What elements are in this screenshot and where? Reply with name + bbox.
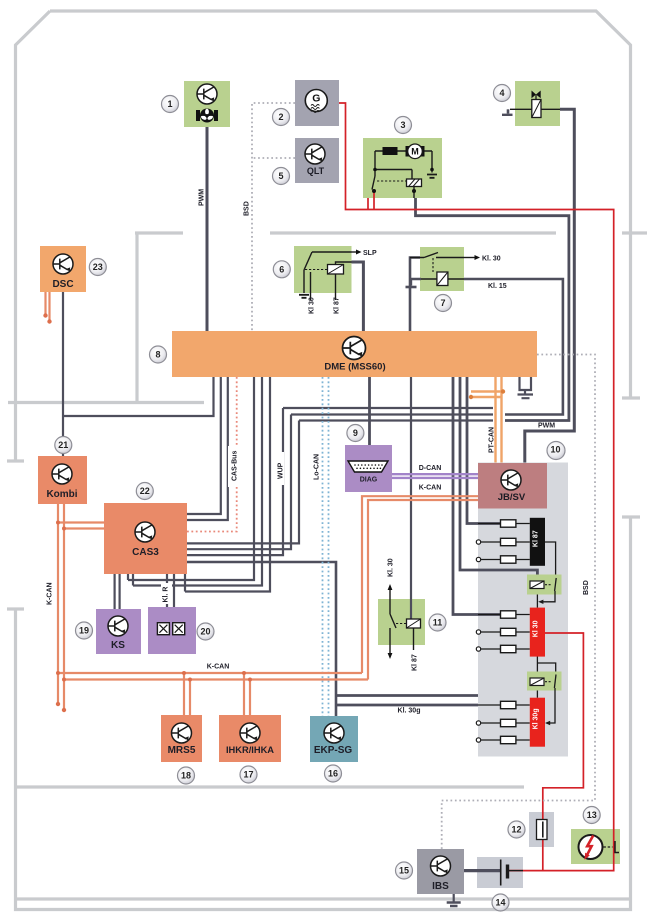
svg-text:DSC: DSC [52, 279, 73, 290]
svg-text:MRS5: MRS5 [168, 745, 196, 756]
svg-text:Kombi: Kombi [46, 489, 77, 500]
label circle 9 [347, 425, 364, 442]
separator line bottom full [16, 897, 631, 900]
ECU symbol EKP-SG [324, 723, 344, 743]
box 1 e-fan green [184, 81, 230, 127]
wire DME pin B to relay1 [460, 377, 537, 581]
box7 internals [410, 253, 464, 280]
label circle 5 [273, 168, 290, 185]
frame ticks [7, 233, 647, 609]
svg-text:1: 1 [167, 99, 172, 109]
wire box3 relay out to panel KL30 col [416, 198, 569, 421]
svg-text:DIAG: DIAG [360, 477, 378, 484]
KL 30g red bar [530, 698, 545, 747]
svg-text:Kl. R: Kl. R [163, 587, 170, 603]
svg-text:8: 8 [155, 350, 160, 360]
svg-text:13: 13 [587, 810, 597, 820]
MRS5 box 18 [161, 715, 202, 762]
ECU symbol IBS [431, 856, 451, 876]
ECU symbol QLT [305, 144, 325, 164]
svg-text:QLT: QLT [307, 166, 325, 176]
fuse F8 [501, 719, 516, 726]
fuse F7 [501, 701, 516, 708]
battery symbol [500, 860, 502, 886]
label circle 19 [76, 622, 93, 639]
fuse F4 [501, 611, 516, 618]
KL 87 black bar [530, 518, 545, 566]
Kombi drops [58, 504, 64, 710]
wire box7 to DME [410, 258, 420, 332]
svg-text:PWM: PWM [538, 423, 555, 430]
DIAG connector [348, 461, 388, 472]
svg-text:18: 18 [181, 771, 191, 781]
KL 30 red bar [530, 608, 545, 657]
svg-text:20: 20 [200, 627, 210, 637]
svg-text:K-CAN: K-CAN [419, 485, 442, 492]
svg-text:19: 19 [79, 626, 89, 636]
svg-text:DME (MSS60): DME (MSS60) [324, 362, 385, 373]
CAS3 box 22 [104, 503, 187, 574]
svg-text:SLP: SLP [363, 250, 377, 257]
starter 13 symbol [579, 835, 603, 859]
Kombi box 21 [38, 456, 87, 504]
Kombi to CAS3 [58, 523, 104, 529]
box2 generator symbol [305, 90, 327, 113]
CAS-Bus dotted [187, 377, 237, 532]
svg-text:WUP: WUP [278, 462, 285, 479]
BSD dotted top [252, 103, 595, 849]
separator y402 [8, 401, 204, 404]
wire DME pair to CAS3 right [187, 377, 228, 520]
svg-text:4: 4 [499, 88, 504, 98]
DSC box 23 [40, 246, 86, 292]
wire DME pin A to fuse1 [467, 377, 501, 524]
KL R label [161, 583, 172, 604]
label circle 11 [429, 614, 446, 631]
svg-text:CAS3: CAS3 [132, 547, 159, 558]
net label CAS-Bus [228, 446, 238, 487]
svg-text:Kl 87: Kl 87 [334, 297, 341, 314]
label circle 4 [494, 85, 511, 102]
wire CAS3 to KS [115, 574, 120, 609]
IHKR/IHKA box 17 [219, 715, 281, 762]
label circle 10 [547, 442, 565, 460]
ECU symbol JB/SV [501, 470, 521, 490]
label circle 20 [197, 623, 214, 640]
svg-text:M: M [411, 147, 419, 157]
ECU symbol CAS3 [135, 522, 155, 542]
box20 X plugs [157, 623, 169, 635]
svg-text:JB/SV: JB/SV [498, 492, 526, 503]
fuse F9 [501, 736, 516, 743]
svg-text:2: 2 [278, 112, 283, 122]
box 5 QLT gray [295, 138, 339, 183]
label circle 1 [162, 96, 179, 113]
relay box 11 [378, 599, 425, 645]
svg-text:BSD: BSD [583, 580, 590, 595]
svg-text:EKP-SG: EKP-SG [314, 745, 353, 756]
svg-text:G: G [312, 93, 320, 105]
svg-text:KS: KS [111, 640, 125, 651]
battery box 14 [477, 857, 523, 888]
svg-text:IBS: IBS [432, 881, 449, 892]
svg-text:Kl. 30g: Kl. 30g [398, 708, 421, 715]
svg-text:Kl 87: Kl 87 [532, 530, 539, 547]
ECU symbol KS [108, 616, 128, 636]
box 20 [148, 607, 196, 654]
svg-text:K-CAN: K-CAN [207, 664, 230, 671]
svg-text:6: 6 [279, 265, 284, 275]
svg-text:Kl 30g: Kl 30g [532, 708, 539, 729]
svg-text:5: 5 [278, 171, 283, 181]
wire DME to DIAG [368, 377, 371, 445]
wire DME pin C to fuse4 [453, 377, 501, 615]
label circle 23 [89, 259, 106, 276]
relay 2 green [527, 672, 562, 691]
svg-text:22: 22 [140, 486, 150, 496]
starter box 13 [571, 829, 620, 864]
wire box4 to PWM JBSV [525, 109, 575, 462]
separator y233 segments [135, 231, 556, 234]
label circle 12 [508, 821, 525, 838]
ECU symbol Kombi [52, 464, 72, 484]
svg-text:Lo-CAN: Lo-CAN [314, 454, 321, 480]
wire KL15 from box7 to bus [464, 279, 563, 415]
wire PWM box1 to DME [206, 127, 209, 331]
wire verticals to CAS3 [187, 408, 299, 555]
fuse F6 [501, 645, 516, 652]
Lo-CAN dotted pair [323, 377, 329, 716]
label circle 21 [55, 437, 72, 454]
wire DSC-DME-Kombi [63, 292, 214, 456]
svg-text:Kl 30: Kl 30 [532, 620, 539, 637]
red box3 drop [368, 191, 374, 210]
DME box 8 [172, 331, 537, 377]
svg-text:BSD: BSD [244, 201, 251, 216]
BSD dotted right-bottom [442, 355, 595, 850]
svg-text:7: 7 [440, 298, 445, 308]
svg-text:Kl. 30: Kl. 30 [482, 256, 501, 263]
ECU symbol IHKR/IHKA [240, 723, 260, 743]
fuse row wires [478, 524, 556, 741]
svg-text:Kl. 15: Kl. 15 [488, 283, 507, 290]
svg-text:11: 11 [433, 618, 443, 628]
svg-text:PWM: PWM [199, 189, 206, 206]
relay11 internals [390, 589, 414, 654]
K-CAN JBSV to bus [362, 496, 478, 679]
svg-text:16: 16 [328, 769, 338, 779]
EKP-SG box 16 [310, 716, 358, 762]
svg-text:K-CAN: K-CAN [47, 582, 54, 605]
box 3 pump relay green [363, 138, 442, 198]
wire CAS3 to EKP and KL30g lines [187, 562, 336, 716]
K-CAN bus [58, 673, 368, 680]
fuse F1 [501, 520, 516, 527]
fuse F2 [501, 538, 516, 545]
svg-text:21: 21 [58, 440, 68, 450]
wire box6 coil to DME [352, 262, 364, 331]
box 6 relay green [294, 246, 352, 293]
label circle 14 [492, 894, 509, 911]
fuse 12 symbol [537, 820, 548, 840]
fuse F3 [501, 556, 516, 563]
label circle 18 [178, 767, 195, 784]
svg-text:23: 23 [93, 262, 103, 272]
ECU symbol DSC [53, 254, 73, 274]
wire DME to relay11 coil [410, 377, 412, 620]
ECU symbol box 1 e-fan module [197, 84, 217, 104]
separator y787 [16, 785, 525, 788]
svg-text:15: 15 [399, 866, 409, 876]
relay 1 green [527, 575, 562, 595]
box 4 valve green [515, 81, 560, 126]
box 2 generator gray [295, 80, 339, 126]
open terminals [476, 540, 480, 742]
wire WUP bundle DME to CAS3 bottom pins [128, 377, 254, 580]
svg-text:D-CAN: D-CAN [419, 465, 442, 472]
junction dots K-CAN [43, 313, 252, 712]
IBS battery wire [464, 869, 501, 872]
ECU symbol MRS5 [172, 723, 192, 743]
svg-text:10: 10 [550, 445, 560, 455]
label circle 17 [240, 766, 257, 783]
label circle 7 [435, 295, 452, 312]
svg-text:PT-CAN: PT-CAN [489, 427, 496, 453]
svg-text:IHKR/IHKA: IHKR/IHKA [226, 745, 274, 755]
svg-text:Kl 87: Kl 87 [412, 654, 419, 671]
box3 internals [372, 151, 432, 198]
DME ground symbol [520, 377, 532, 394]
vertical 137 [135, 233, 138, 403]
label circle 13 [583, 807, 600, 824]
KS box 19 [96, 609, 141, 654]
box4 valve [510, 95, 560, 110]
label circle 22 [136, 483, 153, 500]
label circle 16 [325, 765, 342, 782]
relay links [536, 589, 538, 698]
wire bus horizontals DME-CAS3 link [283, 408, 493, 421]
label circle 6 [273, 261, 290, 278]
IBS ground [453, 894, 455, 902]
red main generator line [339, 103, 614, 871]
ECU symbol DME [343, 337, 366, 360]
net label WUP [274, 452, 284, 485]
label circle 15 [396, 862, 413, 879]
IBS box 15 [417, 849, 464, 894]
fuse F5 [501, 628, 516, 635]
box6 internals [304, 252, 352, 300]
box 7 relay green [420, 247, 464, 291]
DSC stubs [46, 292, 50, 322]
red KL30 bar feed [543, 633, 584, 871]
svg-text:CAS-Bus: CAS-Bus [232, 451, 239, 481]
svg-text:Kl 30: Kl 30 [309, 297, 316, 314]
svg-text:12: 12 [511, 825, 521, 835]
label circle 8 [150, 346, 167, 363]
DIAG box 9 [345, 445, 392, 492]
fuse box 12 [529, 812, 554, 847]
svg-text:14: 14 [495, 898, 505, 908]
label circle 2 [273, 109, 290, 126]
svg-text:Kl. 30: Kl. 30 [388, 558, 395, 577]
svg-text:9: 9 [353, 428, 358, 438]
svg-text:3: 3 [400, 120, 405, 130]
IHKR branch [244, 673, 250, 715]
label circle 3 [395, 117, 412, 134]
net label Lo-CAN [308, 452, 319, 486]
wire CAS3 to box20 KL R [167, 574, 174, 607]
JB/SV panel 10 [478, 463, 568, 757]
svg-text:17: 17 [243, 770, 253, 780]
MRS5 branch [184, 673, 190, 715]
